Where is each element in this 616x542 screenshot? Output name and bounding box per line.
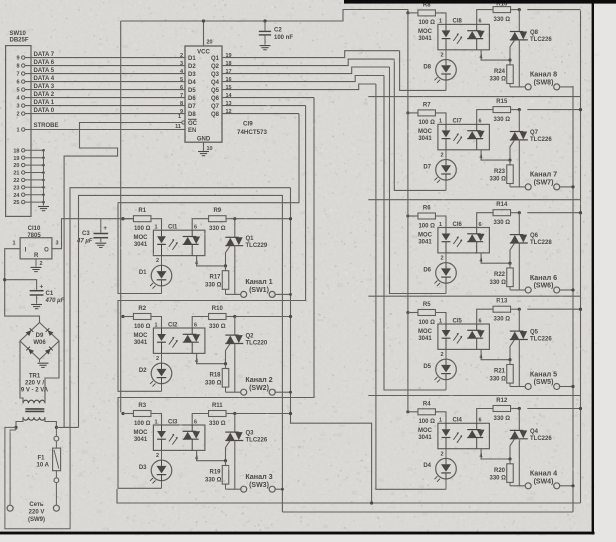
node triac MT2 bbox=[518, 211, 521, 214]
wire mains loop B neutral bbox=[79, 195, 283, 512]
wire opto pin 4 bbox=[481, 50, 510, 60]
fuse holder bottom bbox=[54, 478, 59, 483]
resistor R14 330 Ohm bbox=[493, 210, 511, 216]
wire triac gate bbox=[510, 140, 515, 160]
resistor R6 100 Ohm bbox=[418, 213, 436, 219]
resistor R22 330 Ohm bbox=[509, 263, 511, 268]
triac Q5 TLC226 bbox=[518, 309, 520, 331]
transformer primary coil bbox=[23, 417, 45, 420]
wire bottom rail 2 bbox=[282, 511, 573, 513]
wire STROBE bbox=[25, 129, 185, 131]
resistor R21 330 Ohm bbox=[509, 360, 511, 365]
wire triac MT1 bbox=[234, 441, 236, 490]
LED D1 bbox=[151, 265, 172, 286]
wire triac gate bbox=[510, 439, 515, 459]
resistor R9 330 Ohm bbox=[209, 216, 227, 222]
resistor R20 330 Ohm bbox=[509, 459, 511, 464]
wire triac gate bbox=[226, 246, 231, 266]
LED D3 bbox=[151, 460, 172, 481]
wire MT2 to live bus bbox=[527, 109, 580, 111]
triac Q1 TLC229 bbox=[234, 219, 236, 238]
wire opto pin 2 to D2 bbox=[161, 353, 163, 363]
terminal Сеть left bbox=[7, 505, 13, 511]
wire opto pin 4 bbox=[481, 449, 510, 459]
bridge rectifier D9 W06 bbox=[20, 323, 59, 360]
node gate junction bbox=[508, 457, 511, 460]
wire opto pin 2 to D8 bbox=[445, 50, 447, 60]
wire DATA 2 bbox=[25, 97, 185, 99]
wire +5V to R8 bbox=[408, 12, 418, 14]
wire fuse chain bbox=[55, 427, 57, 436]
wire opto pin 6 to R10 bbox=[192, 317, 208, 329]
node triac MT2 bbox=[518, 108, 521, 111]
wire opto pin 4 bbox=[197, 450, 226, 460]
resistor R1 100 Ohm bbox=[133, 216, 151, 222]
node triac MT2 bbox=[518, 308, 521, 311]
fuse holder top bbox=[54, 436, 59, 441]
wire +5V to R2 bbox=[123, 316, 134, 318]
wire triac MT1 bbox=[234, 246, 236, 295]
wire output left bbox=[226, 488, 241, 490]
resistor R2 100 Ohm bbox=[133, 314, 151, 320]
wire primary right lead bbox=[45, 417, 56, 427]
node C1 tap bbox=[3, 278, 6, 281]
wire opto pin 6 to R13 bbox=[477, 309, 493, 324]
node +5V feed channel 4 bbox=[406, 410, 409, 413]
wire OC to ground run bbox=[64, 123, 182, 428]
terminal Канал 2 right bbox=[269, 389, 275, 395]
wire latch output to channel 1 bbox=[222, 113, 299, 115]
wire mains bus terminal side bbox=[572, 86, 574, 512]
wire opto pin 6 to R15 bbox=[477, 110, 493, 125]
resistor R24 330 Ohm bbox=[509, 60, 511, 65]
wire bottom rail 1 bbox=[117, 489, 581, 503]
wire R5 to opto pin 1 bbox=[436, 313, 447, 325]
wire R8 to opto pin 1 bbox=[436, 13, 447, 25]
terminal Канал 5 right bbox=[554, 384, 560, 390]
wire mains live bus middle bbox=[291, 188, 372, 503]
resistor R3 100 Ohm bbox=[133, 411, 151, 417]
wire triac MT1 bbox=[518, 439, 520, 486]
wire R15 to triac bbox=[511, 109, 519, 111]
wire triac MT1 bbox=[518, 40, 520, 87]
node mains right bbox=[55, 426, 58, 429]
latch pin 10 (GND) stub bbox=[203, 142, 205, 151]
optocoupler CI5 MOC3041 bbox=[438, 324, 490, 349]
wire right terminal to neutral bus bbox=[559, 186, 573, 188]
terminal Канал 2 left bbox=[241, 389, 247, 395]
LED D6 bbox=[436, 263, 457, 284]
wire input loop channel 4 bbox=[376, 84, 446, 489]
wire R1 to opto pin 1 bbox=[151, 219, 162, 231]
resistor R4 100 Ohm bbox=[418, 409, 436, 415]
node triac MT2 bbox=[518, 8, 521, 11]
wire MT2 to live bus bbox=[527, 212, 580, 214]
triac Q6 TLC228 bbox=[518, 213, 520, 235]
wire output left bbox=[510, 86, 525, 88]
node MT2 on live bus bbox=[235, 218, 291, 220]
optocoupler CI1 MOC3041 bbox=[153, 230, 205, 255]
wire opto pin 4 bbox=[481, 253, 510, 263]
resistor R5 100 Ohm bbox=[418, 310, 436, 316]
node triac MT2 bbox=[233, 412, 236, 415]
wire opto pin 6 to R12 bbox=[477, 409, 493, 424]
ground (C2) bbox=[260, 45, 271, 47]
wire opto pin 4 bbox=[481, 150, 510, 160]
wire DATA 0 bbox=[25, 113, 185, 115]
wire input loop channel 8 bbox=[400, 51, 446, 91]
node +5V feed channel 7 bbox=[406, 111, 409, 114]
ground (C3) bbox=[95, 242, 106, 244]
transformer core bbox=[25, 408, 44, 410]
wire right terminal to neutral bus bbox=[559, 86, 573, 88]
resistor R15 330 Ohm bbox=[493, 107, 511, 113]
wire latch output to channel 8 bbox=[222, 51, 400, 58]
wire opto pin 4 bbox=[197, 256, 226, 266]
node +5V feed channel 8 bbox=[406, 11, 409, 14]
node gate junction bbox=[508, 358, 511, 361]
ground (C1) bbox=[31, 304, 42, 306]
LED D5 bbox=[436, 359, 457, 380]
latch pin 20 (VCC) stub bbox=[203, 21, 205, 46]
resistor R17 330 Ohm bbox=[225, 266, 227, 271]
wire 7805 output to +5V node bbox=[52, 219, 134, 249]
wire R12 to triac bbox=[511, 408, 519, 410]
optocoupler CI6 MOC3041 bbox=[438, 228, 490, 253]
node +5V feed channel 3 bbox=[121, 412, 124, 415]
capacitor C2 100nF bbox=[264, 21, 266, 31]
optocoupler CI2 MOC3041 bbox=[153, 328, 205, 353]
optocoupler CI8 MOC3041 bbox=[438, 24, 490, 49]
terminal Канал 1 left bbox=[241, 291, 247, 297]
wire right terminal to neutral bus bbox=[559, 485, 573, 487]
wire triac MT1 bbox=[234, 344, 236, 393]
resistor R19 330 Ohm bbox=[225, 461, 227, 466]
terminal Канал 7 left bbox=[525, 184, 531, 190]
wire R2 to opto pin 1 bbox=[151, 317, 162, 329]
resistor R7 100 Ohm bbox=[418, 110, 436, 116]
wire primary left lead bbox=[16, 417, 23, 427]
wire opto pin 6 to R16 bbox=[477, 10, 493, 25]
wire mains bus MT2 side bbox=[580, 11, 582, 504]
wire +5V top rail bbox=[121, 10, 408, 22]
wire right terminal to neutral bus bbox=[559, 289, 573, 291]
wire opto pin 6 to R11 bbox=[192, 414, 208, 426]
resistor R13 330 Ohm bbox=[493, 306, 511, 312]
resistor R23 330 Ohm bbox=[509, 160, 511, 165]
wire right terminal link bbox=[275, 293, 291, 295]
terminal Канал 6 right bbox=[554, 287, 560, 293]
terminal Канал 3 right bbox=[269, 486, 275, 492]
resistor R16 330 Ohm bbox=[493, 7, 511, 13]
wire opto pin 6 to R14 bbox=[477, 213, 493, 228]
wire R10 to triac bbox=[227, 316, 235, 318]
terminal Канал 8 left bbox=[525, 84, 531, 90]
resistor R12 330 Ohm bbox=[493, 406, 511, 412]
wire input loop channel 5 bbox=[384, 76, 446, 391]
wire MT2 to live bus bbox=[527, 308, 580, 310]
wire R14 to triac bbox=[511, 212, 519, 214]
wire output left bbox=[510, 485, 525, 487]
wire output left bbox=[510, 386, 525, 388]
wire +5V right rail bbox=[407, 13, 409, 412]
LED D8 bbox=[436, 60, 457, 81]
wire DATA 4 bbox=[25, 81, 185, 83]
optocoupler CI7 MOC3041 bbox=[438, 124, 490, 149]
mains enclosure bbox=[5, 427, 70, 528]
optocoupler CI4 MOC3041 bbox=[438, 423, 490, 448]
wire channel separator 4 bbox=[368, 395, 580, 397]
capacitor C1 470uF bbox=[5, 280, 37, 290]
wire DATA 5 bbox=[25, 73, 185, 75]
node triac MT2 bbox=[233, 217, 236, 220]
wire MT2 to live bus bbox=[527, 408, 580, 410]
capacitor C3 47uF bbox=[100, 219, 102, 233]
node gate junction bbox=[508, 59, 511, 62]
wire triac gate bbox=[510, 243, 515, 263]
wire +5V to R5 bbox=[408, 312, 418, 314]
wire latch output to channel 5 bbox=[222, 76, 384, 82]
node MT2 on live bus bbox=[235, 316, 291, 318]
wire +5V left drop bbox=[120, 21, 122, 219]
LED D7 bbox=[436, 160, 457, 181]
resistor R10 330 Ohm bbox=[209, 314, 227, 320]
wire R7 to opto pin 1 bbox=[436, 113, 447, 125]
resistor R18 330 Ohm bbox=[225, 364, 227, 369]
node +5V feed channel 1 bbox=[121, 217, 124, 220]
wire R13 to triac bbox=[511, 308, 519, 310]
wire output left bbox=[510, 186, 525, 188]
wire latch output to channel 7 bbox=[222, 59, 394, 66]
terminal Канал 4 left bbox=[525, 483, 531, 489]
wire triac gate bbox=[226, 344, 231, 364]
wire R6 to opto pin 1 bbox=[436, 216, 447, 228]
wire output left bbox=[226, 293, 241, 295]
wire opto pin 2 to D7 bbox=[445, 150, 447, 160]
wire right terminal to neutral bus bbox=[559, 386, 573, 388]
wire input wrap channel 3 bbox=[118, 98, 314, 489]
node gate junction bbox=[224, 362, 227, 365]
terminal Канал 1 right bbox=[269, 291, 275, 297]
wire R16 to triac bbox=[511, 9, 519, 11]
triac Q8 TLC226 bbox=[518, 10, 520, 32]
wire right terminal link bbox=[275, 488, 283, 490]
terminal Канал 3 left bbox=[241, 486, 247, 492]
LED D4 bbox=[436, 458, 457, 479]
wire DATA 6 bbox=[25, 65, 185, 67]
wire +5V to R4 bbox=[408, 411, 418, 413]
wire DATA 1 bbox=[25, 105, 185, 107]
optocoupler CI3 MOC3041 bbox=[153, 425, 205, 450]
triac Q3 TLC226 bbox=[234, 414, 236, 433]
wire MT2 to live bus bbox=[527, 9, 580, 11]
wire R3 to opto pin 1 bbox=[151, 414, 162, 426]
ground (7805) bbox=[31, 266, 42, 268]
wire R9 to triac bbox=[227, 218, 235, 220]
wire triac gate bbox=[510, 40, 515, 60]
terminal Канал 8 right bbox=[554, 84, 560, 90]
wire triac gate bbox=[226, 441, 231, 461]
wire triac MT1 bbox=[518, 340, 520, 387]
wire channel separator 7 bbox=[368, 96, 580, 98]
node gate junction bbox=[508, 262, 511, 265]
fuse F1 10A bbox=[53, 448, 61, 471]
wire DATA 3 bbox=[25, 89, 185, 91]
terminal Канал 6 left bbox=[525, 287, 531, 293]
wire input loop channel 6 bbox=[390, 67, 447, 294]
latch IC CI9 74HCT573 bbox=[185, 46, 222, 142]
node triac MT2 bbox=[233, 315, 236, 318]
wire triac MT1 bbox=[518, 140, 520, 187]
wire latch output to channel 4 bbox=[222, 84, 376, 90]
wire latch output to channel 3 bbox=[222, 97, 314, 99]
wire channel separator 6 bbox=[368, 199, 580, 201]
wire latch output to channel 6 bbox=[222, 67, 390, 74]
node gate junction bbox=[224, 264, 227, 267]
wire input wrap channel 1 bbox=[118, 114, 299, 294]
node MT2 on live bus bbox=[235, 413, 291, 415]
wire DB25 ground bus bbox=[43, 150, 45, 205]
node mains left bbox=[14, 426, 17, 429]
wire opto pin 6 to R9 bbox=[192, 219, 208, 231]
wire output left bbox=[226, 391, 241, 393]
wire 7805 input bbox=[5, 249, 40, 323]
terminal Канал 5 left bbox=[525, 384, 531, 390]
node triac MT2 bbox=[518, 407, 521, 410]
node +5V middle bbox=[121, 217, 124, 220]
wire input loop channel 7 bbox=[394, 59, 446, 190]
triac Q4 TLC226 bbox=[518, 409, 520, 431]
triac Q2 TLC220 bbox=[234, 317, 236, 336]
wire bridge AC left bbox=[20, 341, 23, 403]
wire mains tap to risers bbox=[56, 426, 78, 428]
node gate junction bbox=[224, 459, 227, 462]
wire channel separator 5 bbox=[368, 295, 580, 297]
terminal Канал 4 right bbox=[554, 483, 560, 489]
resistor R11 330 Ohm bbox=[209, 411, 227, 417]
node +5V feed channel 2 bbox=[121, 315, 124, 318]
wire +5V to R7 bbox=[408, 112, 418, 114]
wire bridge AC right bbox=[45, 341, 59, 400]
wire mains left to terminal bbox=[15, 427, 17, 430]
wire opto pin 2 to D5 bbox=[445, 349, 447, 359]
wire +5V to R3 bbox=[123, 413, 134, 415]
wire input wrap channel 2 bbox=[118, 106, 306, 392]
node gate junction bbox=[508, 159, 511, 162]
wire mains loop A live bbox=[70, 188, 291, 428]
wire opto pin 2 to D3 bbox=[161, 450, 163, 460]
resistor R8 100 Ohm bbox=[418, 10, 436, 16]
wire +5V to R1 bbox=[123, 218, 134, 220]
wire opto pin 2 to D6 bbox=[445, 253, 447, 263]
terminal Канал 7 right bbox=[554, 184, 560, 190]
wire output left bbox=[510, 289, 525, 291]
terminal Сеть right bbox=[53, 505, 59, 511]
wire opto pin 2 to D1 bbox=[161, 256, 163, 266]
wire 7805 ground stub bbox=[35, 259, 37, 267]
wire R4 to opto pin 1 bbox=[436, 412, 447, 424]
LED D2 bbox=[151, 363, 172, 384]
wire triac gate bbox=[510, 340, 515, 360]
wire R11 to triac bbox=[227, 413, 235, 415]
triac Q7 TLC226 bbox=[518, 110, 520, 132]
wire triac MT1 bbox=[518, 243, 520, 290]
node +5V feed channel 5 bbox=[406, 311, 409, 314]
node +5V feed channel 6 bbox=[406, 214, 409, 217]
wire right terminal link bbox=[275, 391, 291, 393]
wire +5V to R6 bbox=[408, 215, 418, 217]
wire latch output to channel 2 bbox=[222, 105, 306, 107]
wire opto pin 2 to D4 bbox=[445, 449, 447, 459]
node +5V at C2 bbox=[263, 19, 266, 22]
wire opto pin 4 bbox=[197, 353, 226, 363]
wire opto pin 4 bbox=[481, 349, 510, 359]
ground (bridge negative) bbox=[39, 360, 41, 363]
ground (DB25 shell) bbox=[38, 206, 49, 208]
wire DATA 7 bbox=[25, 57, 185, 59]
ground (latch GND) bbox=[198, 151, 209, 153]
